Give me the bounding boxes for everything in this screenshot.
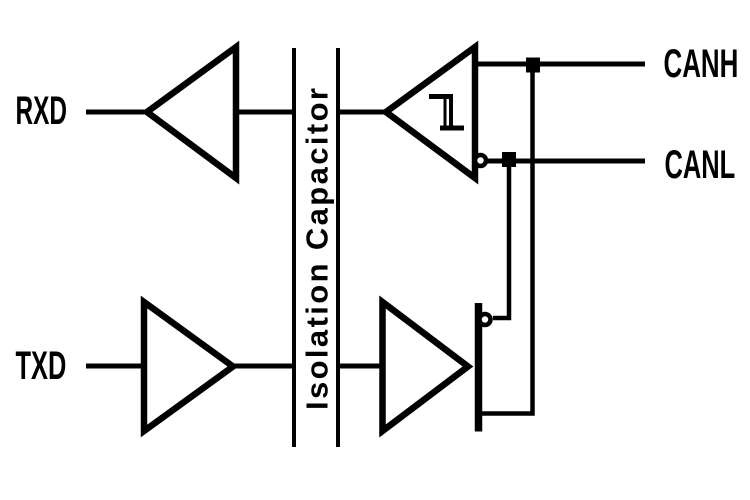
op-amp U2 CAN receiver <box>386 47 475 178</box>
wire CANH junction down to driver low side <box>479 64 533 414</box>
svg-text:CANL: CANL <box>665 143 736 187</box>
hysteresis symbol inside U2 <box>429 94 453 99</box>
inverting bubble on U2 output <box>475 155 486 166</box>
junction CANH node <box>526 58 540 73</box>
inverting bubble on driver high output <box>480 314 491 325</box>
driver output bar <box>475 303 483 432</box>
wire TXD input <box>86 364 146 369</box>
wire CANL junction down to driver high side <box>493 160 509 318</box>
wire isolation barrier to U4 input <box>338 364 385 369</box>
svg-text:CANH: CANH <box>664 41 739 86</box>
svg-text:RXD: RXD <box>16 89 68 134</box>
wire U3 output to isolation barrier <box>233 364 294 369</box>
isolation capacitor line left <box>292 48 296 447</box>
buffer U3 TXD transmit buffer <box>144 302 233 431</box>
isolation capacitor line right <box>336 48 340 447</box>
wire U1 output to isolation barrier <box>236 110 294 115</box>
wire RXD input <box>86 110 150 115</box>
svg-text:TXD: TXD <box>16 344 67 388</box>
wire CANH <box>475 62 645 67</box>
junction CANL node <box>502 152 516 167</box>
buffer U1 RXD receive buffer <box>147 47 236 178</box>
wire CANL <box>487 159 645 164</box>
op-amp U4 CAN driver <box>383 302 469 431</box>
wire isolation barrier to U2 input <box>338 110 386 115</box>
